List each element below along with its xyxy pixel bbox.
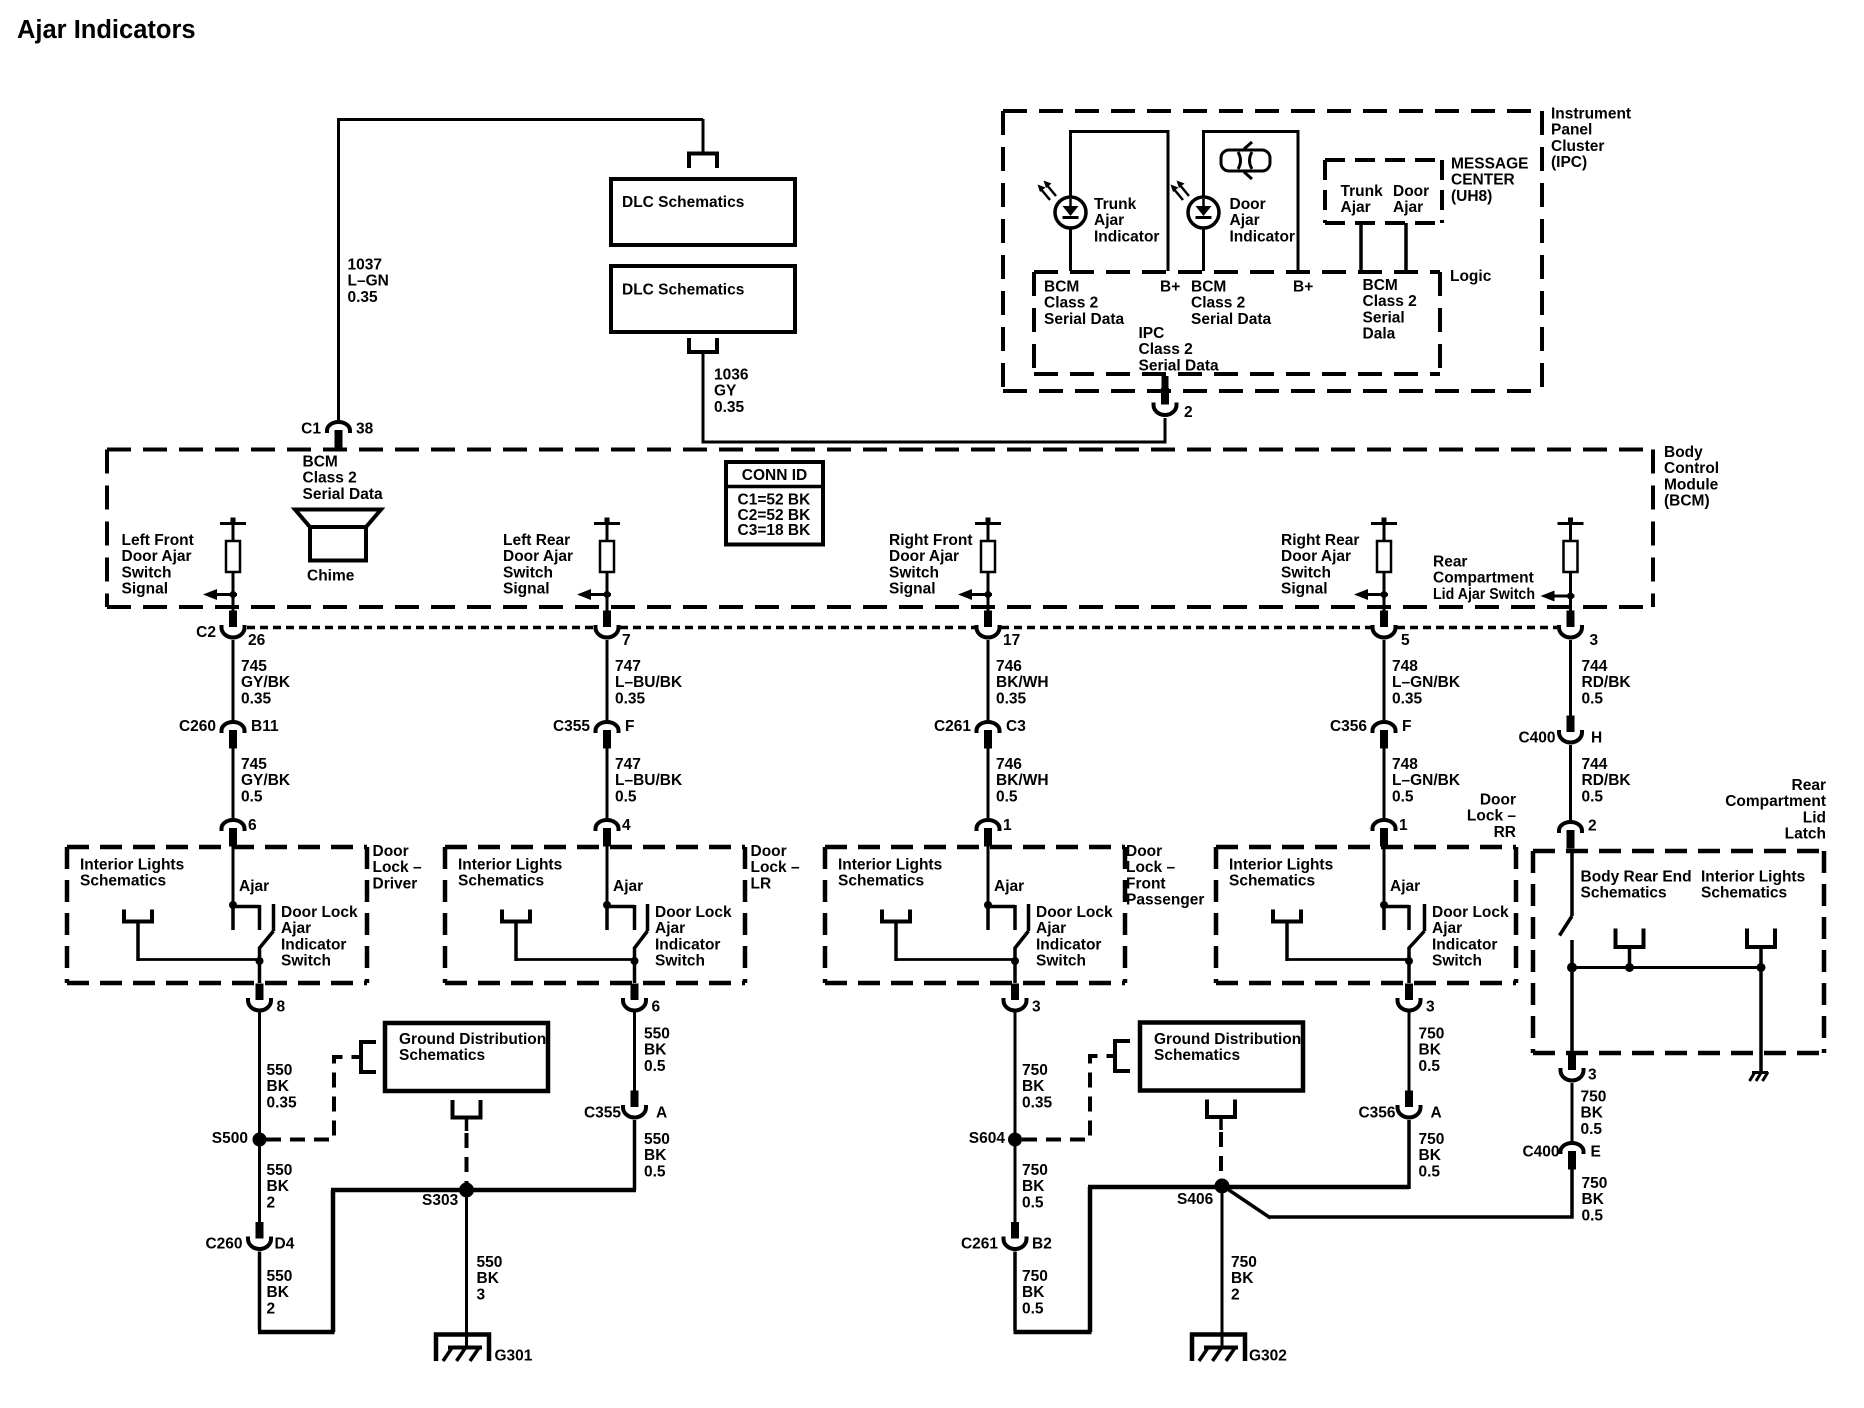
svg-text:Signal: Signal bbox=[1281, 581, 1328, 598]
wire 1036 GY: DLC box down and across to IPC pin 2 bbox=[702, 352, 705, 444]
svg-text:Class 2: Class 2 bbox=[1044, 295, 1098, 312]
svg-text:2: 2 bbox=[1231, 1286, 1240, 1303]
ground G301 bbox=[436, 1335, 489, 1362]
svg-text:3: 3 bbox=[477, 1286, 486, 1303]
svg-text:A: A bbox=[656, 1104, 667, 1121]
connector C261 cavity C3 bbox=[977, 722, 1000, 749]
S406 ground bus bbox=[1088, 1185, 1409, 1190]
svg-text:Serial: Serial bbox=[1363, 309, 1405, 326]
svg-text:Indicator: Indicator bbox=[1036, 936, 1101, 953]
circuit column 2: wire from BCM connector down bbox=[606, 640, 609, 720]
connector C355 cavity F bbox=[596, 722, 619, 749]
svg-text:4: 4 bbox=[622, 817, 631, 834]
svg-text:Class 2: Class 2 bbox=[303, 470, 357, 487]
svg-text:Schematics: Schematics bbox=[1581, 885, 1667, 902]
circuit column 5: wire from BCM connector down bbox=[1569, 640, 1572, 720]
svg-text:Instrument: Instrument bbox=[1551, 105, 1631, 122]
svg-text:Cluster: Cluster bbox=[1551, 138, 1604, 155]
svg-text:Schematics: Schematics bbox=[1154, 1047, 1240, 1064]
LED emission arrows (door) bbox=[1173, 184, 1189, 200]
svg-text:7: 7 bbox=[622, 632, 631, 649]
wire 750 BK 0.35 (column 3) bbox=[1014, 1013, 1017, 1134]
svg-text:Indicator: Indicator bbox=[281, 936, 346, 953]
svg-text:2: 2 bbox=[267, 1300, 276, 1317]
svg-text:Door Ajar: Door Ajar bbox=[1281, 548, 1351, 565]
svg-text:0.35: 0.35 bbox=[714, 399, 745, 416]
svg-text:0.5: 0.5 bbox=[1419, 1163, 1441, 1180]
svg-text:745: 745 bbox=[241, 756, 267, 773]
connector C260 cavity D4 bbox=[248, 1222, 271, 1249]
svg-text:S604: S604 bbox=[969, 1130, 1006, 1147]
svg-text:Door: Door bbox=[1230, 196, 1266, 213]
BCM ajar switch signal branch at x=1384: Right Rear Door Ajar bbox=[1371, 522, 1397, 525]
svg-text:S406: S406 bbox=[1177, 1191, 1214, 1208]
wire into box bbox=[606, 845, 609, 905]
connector pin 1 into door lock bbox=[1373, 820, 1396, 847]
svg-text:BCM: BCM bbox=[1191, 278, 1226, 295]
svg-text:Dala: Dala bbox=[1363, 326, 1396, 343]
wire 550 BK 0.5 (column 2) bbox=[633, 1013, 636, 1092]
svg-text:Front: Front bbox=[1126, 875, 1166, 892]
svg-text:0.5: 0.5 bbox=[1022, 1194, 1044, 1211]
svg-text:Indicator: Indicator bbox=[1094, 228, 1159, 245]
connector pin 8 below door lock bbox=[248, 984, 271, 1011]
connector C2 row pin 26 bbox=[232, 607, 235, 612]
svg-text:Door Lock: Door Lock bbox=[1432, 904, 1509, 921]
svg-text:0.35: 0.35 bbox=[241, 690, 272, 707]
wire from bracket to switch bbox=[516, 958, 635, 961]
svg-text:GY/BK: GY/BK bbox=[241, 772, 291, 789]
svg-text:0.5: 0.5 bbox=[1419, 1058, 1441, 1075]
svg-text:L–GN: L–GN bbox=[348, 273, 389, 290]
svg-text:Ajar: Ajar bbox=[655, 920, 685, 937]
svg-text:BK: BK bbox=[1419, 1147, 1442, 1164]
dashed wire to S303 bbox=[465, 1133, 469, 1183]
trunk ajar indicator LED loop wires bbox=[1069, 130, 1072, 198]
wire 1037 L-GN: C1 pin 38 up and across to DLC connector bbox=[337, 119, 340, 420]
wire to box bottom bbox=[1013, 961, 1017, 983]
ground G302 bbox=[1192, 1335, 1245, 1362]
wire segment to door lock switch bbox=[987, 747, 990, 818]
svg-text:748: 748 bbox=[1392, 756, 1418, 773]
svg-text:Right Front: Right Front bbox=[889, 532, 973, 549]
svg-text:Trunk: Trunk bbox=[1341, 183, 1384, 200]
svg-text:Switch: Switch bbox=[655, 953, 705, 970]
Ground Distribution Schematics box (left) bbox=[385, 1023, 548, 1091]
svg-text:BK: BK bbox=[1022, 1178, 1045, 1195]
svg-text:750: 750 bbox=[1022, 1162, 1048, 1179]
svg-text:550: 550 bbox=[267, 1062, 293, 1079]
svg-text:Ajar: Ajar bbox=[239, 878, 269, 895]
svg-text:GY/BK: GY/BK bbox=[241, 674, 291, 691]
svg-text:Door Lock: Door Lock bbox=[281, 904, 358, 921]
dashed link S500 to ground distribution bbox=[266, 1057, 360, 1140]
svg-text:0.5: 0.5 bbox=[1582, 788, 1604, 805]
svg-text:C3=18 BK: C3=18 BK bbox=[738, 522, 812, 539]
svg-text:Ajar: Ajar bbox=[613, 878, 643, 895]
svg-text:C355: C355 bbox=[584, 1104, 621, 1121]
door lock dashed box column 1 bbox=[67, 845, 367, 850]
svg-text:0.35: 0.35 bbox=[1022, 1094, 1053, 1111]
connector C355 cavity A bbox=[623, 1091, 646, 1118]
svg-text:Latch: Latch bbox=[1785, 826, 1826, 843]
svg-text:550: 550 bbox=[267, 1162, 293, 1179]
svg-text:BCM: BCM bbox=[303, 453, 338, 470]
svg-text:Door: Door bbox=[751, 843, 787, 860]
door lock dashed box column 2 bbox=[445, 845, 745, 850]
svg-text:Driver: Driver bbox=[373, 875, 418, 892]
svg-text:Signal: Signal bbox=[503, 581, 550, 598]
svg-text:BK/WH: BK/WH bbox=[996, 772, 1049, 789]
svg-text:(UH8): (UH8) bbox=[1451, 188, 1492, 205]
svg-text:C261: C261 bbox=[934, 718, 971, 735]
svg-text:Signal: Signal bbox=[889, 581, 936, 598]
wire into box bbox=[987, 845, 990, 905]
IPC connector pin 2 bbox=[1162, 376, 1169, 400]
svg-text:0.5: 0.5 bbox=[996, 788, 1018, 805]
svg-text:Signal: Signal bbox=[122, 581, 169, 598]
svg-text:Indicator: Indicator bbox=[1432, 936, 1497, 953]
svg-text:Ajar: Ajar bbox=[1393, 199, 1423, 216]
svg-text:C356: C356 bbox=[1358, 1104, 1395, 1121]
svg-text:C260: C260 bbox=[205, 1235, 242, 1252]
car top-view icon bbox=[1221, 142, 1270, 179]
door lock ajar indicator switch bbox=[984, 901, 992, 909]
svg-text:Compartment: Compartment bbox=[1433, 570, 1534, 587]
circuit column 1: wire from BCM connector down bbox=[232, 640, 235, 720]
svg-text:Switch: Switch bbox=[1432, 953, 1482, 970]
svg-text:S500: S500 bbox=[212, 1130, 248, 1147]
svg-text:Switch: Switch bbox=[1036, 953, 1086, 970]
svg-text:Schematics: Schematics bbox=[399, 1047, 485, 1064]
lid ajar switch (open) bbox=[1570, 849, 1574, 916]
svg-text:DLC Schematics: DLC Schematics bbox=[622, 194, 744, 211]
svg-text:2: 2 bbox=[267, 1194, 276, 1211]
svg-text:0.5: 0.5 bbox=[241, 788, 263, 805]
svg-text:Ajar: Ajar bbox=[1094, 212, 1124, 229]
svg-text:Door Lock: Door Lock bbox=[1036, 904, 1113, 921]
svg-text:LR: LR bbox=[751, 875, 772, 892]
wire 750 BK 0.5 (B2 to splice S406) bbox=[1013, 1252, 1017, 1331]
wire segment to door lock switch bbox=[606, 747, 609, 818]
svg-text:B+: B+ bbox=[1293, 278, 1313, 295]
svg-text:B11: B11 bbox=[251, 718, 279, 735]
connector pin 6 below door lock bbox=[623, 984, 646, 1011]
svg-text:0.35: 0.35 bbox=[615, 690, 646, 707]
svg-text:RD/BK: RD/BK bbox=[1582, 674, 1632, 691]
svg-text:744: 744 bbox=[1582, 756, 1608, 773]
wire into box bbox=[232, 845, 235, 905]
svg-text:Class 2: Class 2 bbox=[1191, 295, 1245, 312]
svg-text:Ajar: Ajar bbox=[1341, 199, 1371, 216]
svg-text:Switch: Switch bbox=[503, 564, 553, 581]
svg-text:Ground Distribution: Ground Distribution bbox=[399, 1031, 546, 1048]
svg-text:L–BU/BK: L–BU/BK bbox=[615, 674, 683, 691]
splice S303 bbox=[459, 1183, 474, 1198]
svg-text:Rear: Rear bbox=[1433, 553, 1467, 570]
svg-text:Door Lock: Door Lock bbox=[655, 904, 732, 921]
connector C261 cavity B2 bbox=[1004, 1222, 1027, 1249]
svg-text:Logic: Logic bbox=[1450, 268, 1492, 285]
svg-text:Interior Lights: Interior Lights bbox=[458, 856, 562, 873]
Body Control Module (BCM) dashed box bbox=[107, 448, 1653, 452]
splice S406 bbox=[1215, 1179, 1230, 1194]
svg-text:BK: BK bbox=[1581, 1105, 1604, 1122]
svg-text:BK/WH: BK/WH bbox=[996, 674, 1049, 691]
svg-text:0.5: 0.5 bbox=[615, 788, 637, 805]
wire segment to door lock switch bbox=[232, 747, 235, 818]
svg-text:8: 8 bbox=[277, 998, 286, 1015]
svg-text:750: 750 bbox=[1582, 1175, 1608, 1192]
svg-text:Panel: Panel bbox=[1551, 122, 1592, 139]
svg-text:Interior Lights: Interior Lights bbox=[838, 856, 942, 873]
svg-text:745: 745 bbox=[241, 658, 267, 675]
svg-text:Ground Distribution: Ground Distribution bbox=[1154, 1031, 1301, 1048]
svg-text:G302: G302 bbox=[1249, 1347, 1287, 1364]
svg-text:BK: BK bbox=[477, 1270, 500, 1287]
svg-text:Lid: Lid bbox=[1803, 809, 1826, 826]
svg-text:0.35: 0.35 bbox=[996, 690, 1027, 707]
svg-text:BK: BK bbox=[1419, 1042, 1442, 1059]
svg-text:750: 750 bbox=[1022, 1062, 1048, 1079]
svg-text:750: 750 bbox=[1581, 1088, 1607, 1105]
svg-text:RD/BK: RD/BK bbox=[1582, 772, 1632, 789]
svg-text:Ajar: Ajar bbox=[1432, 920, 1462, 937]
svg-text:550: 550 bbox=[644, 1131, 670, 1148]
Instrument Panel Cluster (IPC) dashed box bbox=[1003, 109, 1542, 113]
svg-text:Lock –: Lock – bbox=[1126, 859, 1175, 876]
svg-text:3: 3 bbox=[1426, 998, 1435, 1015]
svg-text:Switch: Switch bbox=[122, 564, 172, 581]
svg-text:F: F bbox=[1402, 718, 1411, 735]
door ajar indicator LED loop wires bbox=[1202, 130, 1205, 198]
svg-text:Indicator: Indicator bbox=[1230, 228, 1295, 245]
DLC Schematics box 1 bbox=[611, 179, 795, 245]
dashed wire to S406 bbox=[1219, 1132, 1223, 1178]
connector C356 cavity A bbox=[1398, 1091, 1421, 1118]
interior lights bracket bbox=[124, 910, 152, 922]
wire loop to S406 bus bbox=[1014, 1330, 1092, 1335]
svg-text:Door Ajar: Door Ajar bbox=[503, 548, 573, 565]
wire 550 BK 2 (S500 to C260 D4) bbox=[258, 1146, 261, 1222]
svg-text:BCM: BCM bbox=[1044, 278, 1079, 295]
svg-text:0.5: 0.5 bbox=[644, 1058, 666, 1075]
svg-text:744: 744 bbox=[1582, 658, 1608, 675]
svg-text:Switch: Switch bbox=[889, 564, 939, 581]
wire from bracket to switch bbox=[1287, 958, 1409, 961]
wire 550 BK 2 (D4 to splice S303) bbox=[258, 1252, 262, 1331]
svg-text:BK: BK bbox=[267, 1078, 290, 1095]
svg-text:S303: S303 bbox=[422, 1192, 459, 1209]
circuit column 3: wire from BCM connector down bbox=[987, 640, 990, 720]
connector pin 4 into door lock bbox=[596, 820, 619, 847]
wire segment 744 RD/BK 0.5 bbox=[1569, 745, 1572, 820]
svg-text:Schematics: Schematics bbox=[1701, 885, 1787, 902]
svg-text:746: 746 bbox=[996, 756, 1022, 773]
svg-text:Body: Body bbox=[1664, 444, 1703, 461]
svg-text:Control: Control bbox=[1664, 460, 1719, 477]
wire 550 BK 0.5 to S303 bus bbox=[633, 1120, 637, 1190]
svg-text:750: 750 bbox=[1419, 1131, 1445, 1148]
splice S500 bbox=[253, 1133, 267, 1147]
connector C1 pin 38 into BCM bbox=[327, 422, 350, 449]
svg-text:Lock –: Lock – bbox=[751, 859, 800, 876]
connector C2 row pin 7 bbox=[606, 607, 609, 612]
svg-text:C400: C400 bbox=[1518, 729, 1555, 746]
svg-text:Schematics: Schematics bbox=[80, 873, 166, 890]
svg-text:746: 746 bbox=[996, 658, 1022, 675]
svg-text:747: 747 bbox=[615, 756, 641, 773]
connector pin 2 into rear lid latch bbox=[1559, 822, 1582, 849]
connector C260 cavity B11 bbox=[222, 722, 245, 749]
svg-text:A: A bbox=[1431, 1104, 1442, 1121]
dotted connector row line C2/C3 bbox=[247, 626, 594, 630]
svg-text:BCM: BCM bbox=[1363, 277, 1398, 294]
splice S604 bbox=[1008, 1133, 1022, 1147]
interior lights bracket bbox=[502, 910, 530, 922]
page connector bracket to DLC Schematics (top) bbox=[689, 154, 717, 169]
svg-text:Trunk: Trunk bbox=[1094, 196, 1137, 213]
svg-text:750: 750 bbox=[1419, 1025, 1445, 1042]
svg-text:(BCM): (BCM) bbox=[1664, 493, 1710, 510]
svg-text:Interior Lights: Interior Lights bbox=[1229, 856, 1333, 873]
svg-text:17: 17 bbox=[1003, 632, 1020, 649]
BCM ajar switch signal branch at x=233: Left Front Door Ajar bbox=[220, 522, 246, 525]
svg-text:748: 748 bbox=[1392, 658, 1418, 675]
svg-text:L–GN/BK: L–GN/BK bbox=[1392, 674, 1461, 691]
svg-text:Passenger: Passenger bbox=[1126, 892, 1204, 909]
bracket below ground distribution box (left) bbox=[453, 1100, 481, 1118]
door lock ajar indicator switch bbox=[229, 901, 237, 909]
svg-text:Serial Data: Serial Data bbox=[1044, 311, 1125, 328]
svg-text:BK: BK bbox=[1022, 1078, 1045, 1095]
interior lights bracket bbox=[1273, 910, 1301, 922]
svg-text:Ajar: Ajar bbox=[1230, 212, 1260, 229]
wire 750 BK 0.5 (column 4) bbox=[1408, 1013, 1411, 1092]
svg-text:1037: 1037 bbox=[348, 256, 382, 273]
bracket below ground distribution box (right) bbox=[1207, 1100, 1235, 1118]
svg-text:CENTER: CENTER bbox=[1451, 172, 1515, 189]
svg-text:Ajar: Ajar bbox=[1390, 878, 1420, 895]
connector pin 3 below rear lid latch bbox=[1561, 1054, 1584, 1081]
door lock ajar indicator switch bbox=[603, 901, 611, 909]
BCM rear compartment lid ajar switch branch bbox=[1558, 522, 1584, 525]
page connector bracket from DLC Schematics (bottom) bbox=[689, 338, 717, 352]
internal bus wire bbox=[1572, 966, 1760, 969]
svg-text:Switch: Switch bbox=[281, 953, 331, 970]
svg-text:Serial Data: Serial Data bbox=[303, 486, 384, 503]
svg-text:550: 550 bbox=[644, 1025, 670, 1042]
svg-text:3: 3 bbox=[1032, 998, 1041, 1015]
svg-text:Lid Ajar Switch: Lid Ajar Switch bbox=[1433, 586, 1535, 603]
svg-text:RR: RR bbox=[1494, 824, 1516, 841]
svg-text:750: 750 bbox=[1231, 1254, 1257, 1271]
door lock dashed box column 3 bbox=[825, 845, 1125, 850]
svg-text:G301: G301 bbox=[495, 1347, 533, 1364]
Logic dashed box inside IPC bbox=[1034, 270, 1440, 274]
svg-text:BK: BK bbox=[1231, 1270, 1254, 1287]
wire into box bbox=[1383, 845, 1386, 905]
svg-text:B2: B2 bbox=[1032, 1235, 1052, 1252]
wire 750 BK 2 to G302 bbox=[1221, 1187, 1224, 1348]
svg-text:C356: C356 bbox=[1330, 718, 1367, 735]
svg-text:CONN ID: CONN ID bbox=[742, 467, 807, 484]
door lock ajar indicator switch bbox=[1380, 901, 1388, 909]
svg-text:Ajar: Ajar bbox=[994, 878, 1024, 895]
chime speaker symbol bbox=[295, 510, 381, 561]
svg-text:0.5: 0.5 bbox=[644, 1163, 666, 1180]
connector pin 3 below door lock bbox=[1004, 984, 1027, 1011]
ground distribution connector bracket (right) bbox=[1115, 1041, 1130, 1071]
svg-text:Lock –: Lock – bbox=[373, 859, 422, 876]
circuit column 4: wire from BCM connector down bbox=[1383, 640, 1386, 720]
svg-text:(IPC): (IPC) bbox=[1551, 154, 1587, 171]
wire loop to S303 bus bbox=[258, 1330, 335, 1335]
svg-text:Left Rear: Left Rear bbox=[503, 532, 570, 549]
wires from message center to logic bbox=[1359, 223, 1363, 271]
svg-text:550: 550 bbox=[477, 1254, 503, 1271]
svg-text:DLC Schematics: DLC Schematics bbox=[622, 281, 744, 298]
svg-text:Door: Door bbox=[1480, 791, 1516, 808]
svg-text:0.35: 0.35 bbox=[348, 289, 379, 306]
CONN ID table bbox=[726, 462, 823, 545]
svg-text:B+: B+ bbox=[1160, 278, 1180, 295]
connector pin 6 into door lock bbox=[222, 820, 245, 847]
svg-text:Interior Lights: Interior Lights bbox=[80, 856, 184, 873]
svg-text:Ajar: Ajar bbox=[281, 920, 311, 937]
svg-text:0.5: 0.5 bbox=[1582, 690, 1604, 707]
svg-text:C2: C2 bbox=[196, 624, 216, 641]
internal ground hash bbox=[1750, 1072, 1769, 1081]
svg-text:Class 2: Class 2 bbox=[1139, 341, 1193, 358]
svg-text:Serial Data: Serial Data bbox=[1191, 311, 1272, 328]
svg-text:2: 2 bbox=[1184, 404, 1193, 421]
ground distribution connector bracket (left) bbox=[361, 1042, 376, 1072]
wire to box bottom bbox=[258, 961, 262, 983]
connector pin 1 into door lock bbox=[977, 820, 1000, 847]
svg-text:BK: BK bbox=[1582, 1191, 1605, 1208]
svg-text:Left Front: Left Front bbox=[122, 532, 194, 549]
svg-text:BK: BK bbox=[644, 1147, 667, 1164]
svg-text:Class 2: Class 2 bbox=[1363, 293, 1417, 310]
svg-text:6: 6 bbox=[248, 817, 257, 834]
svg-text:Ajar Indicators: Ajar Indicators bbox=[17, 16, 196, 44]
LED emission arrows (trunk) bbox=[1040, 184, 1056, 200]
svg-text:Schematics: Schematics bbox=[838, 873, 924, 890]
svg-text:C260: C260 bbox=[179, 718, 216, 735]
svg-text:C355: C355 bbox=[553, 718, 590, 735]
svg-text:6: 6 bbox=[652, 998, 661, 1015]
svg-text:L–GN/BK: L–GN/BK bbox=[1392, 772, 1461, 789]
svg-text:Door Ajar: Door Ajar bbox=[889, 548, 959, 565]
svg-text:IPC: IPC bbox=[1139, 325, 1165, 342]
wire from bracket to switch bbox=[138, 958, 260, 961]
svg-text:Serial Data: Serial Data bbox=[1139, 357, 1220, 374]
svg-text:1: 1 bbox=[1399, 817, 1408, 834]
svg-text:BK: BK bbox=[644, 1042, 667, 1059]
junction node bbox=[1567, 963, 1577, 973]
svg-text:38: 38 bbox=[356, 420, 374, 437]
svg-text:1: 1 bbox=[1003, 817, 1012, 834]
wire 750 BK 0.5 to S406 bus bbox=[1407, 1120, 1411, 1189]
interior lights bracket bbox=[882, 910, 910, 922]
body rear end bracket bbox=[1616, 929, 1644, 948]
svg-text:Schematics: Schematics bbox=[458, 873, 544, 890]
svg-text:0.5: 0.5 bbox=[1392, 788, 1414, 805]
svg-text:Ajar: Ajar bbox=[1036, 920, 1066, 937]
svg-text:C400: C400 bbox=[1522, 1143, 1559, 1160]
svg-text:Door: Door bbox=[373, 843, 409, 860]
